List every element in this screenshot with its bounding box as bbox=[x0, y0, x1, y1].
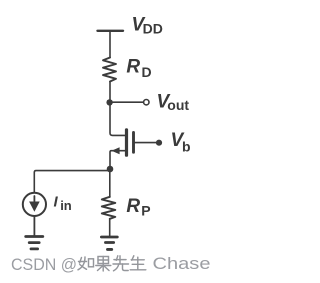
wire node to Vout terminal bbox=[110, 101, 143, 103]
svg-text:b: b bbox=[182, 138, 191, 154]
svg-text:R: R bbox=[126, 57, 140, 78]
open terminal circle Vout bbox=[144, 100, 149, 105]
svg-text:out: out bbox=[167, 97, 189, 113]
node Vout junction dot bbox=[106, 99, 112, 105]
watermark char 果 bbox=[98, 257, 109, 264]
current source Iin circle bbox=[23, 193, 46, 216]
wire VDD bar to RD bbox=[109, 31, 111, 58]
node source junction dot bbox=[107, 166, 114, 173]
watermark char 如 bbox=[80, 258, 82, 264]
wire RP to ground bbox=[109, 219, 111, 236]
wire source lead bbox=[110, 151, 125, 169]
svg-text:P: P bbox=[141, 203, 150, 219]
wire RD to Vout node bbox=[109, 82, 111, 104]
watermark char 生 bbox=[132, 256, 134, 260]
ground (RP branch) bbox=[101, 236, 117, 239]
VDD supply rail bar bbox=[98, 30, 124, 32]
svg-text:Chase: Chase bbox=[153, 254, 211, 273]
resistor RD bbox=[103, 58, 116, 82]
wire gate lead to Vb bbox=[135, 142, 157, 144]
watermark char 先 bbox=[116, 256, 118, 260]
ground (Iin branch) bbox=[26, 235, 43, 238]
transistor M1 gate bar bbox=[132, 133, 135, 153]
current source Iin arrow bbox=[33, 196, 35, 204]
resistor RP bbox=[102, 197, 116, 219]
node Vb terminal dot bbox=[156, 140, 162, 146]
transistor M1 channel bar bbox=[125, 130, 128, 155]
svg-text:R: R bbox=[126, 196, 140, 217]
svg-text:DD: DD bbox=[143, 21, 163, 37]
transistor M1 source arrow bbox=[112, 147, 120, 154]
wire Iin to ground bbox=[33, 216, 35, 235]
wire node to Iin branch bbox=[34, 171, 110, 193]
wire drain (node down to transistor drain) bbox=[110, 102, 125, 135]
svg-text:D: D bbox=[142, 64, 152, 80]
svg-text:CSDN @: CSDN @ bbox=[11, 255, 77, 274]
wire node to RP bbox=[109, 170, 111, 197]
svg-text:in: in bbox=[60, 198, 72, 213]
